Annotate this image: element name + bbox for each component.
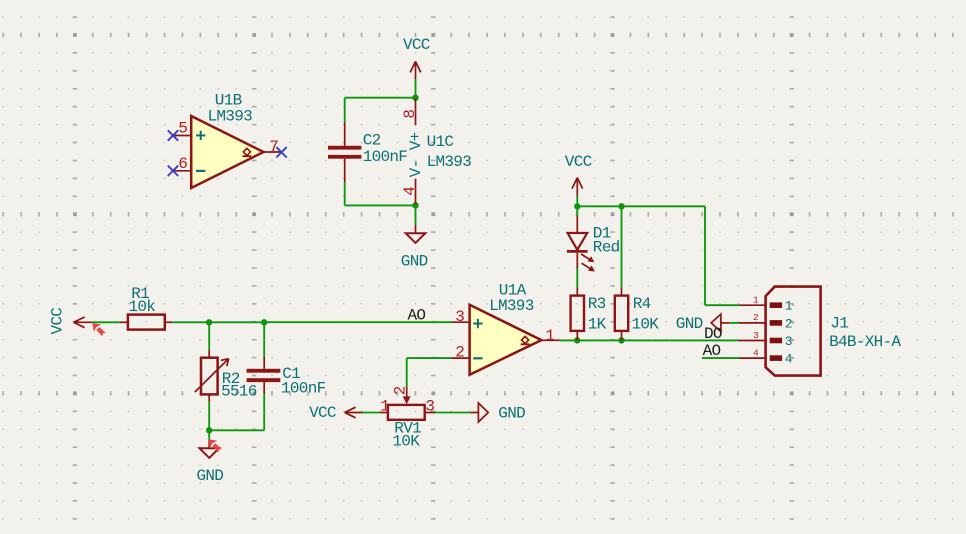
- svg-text:1: 1: [380, 398, 389, 416]
- svg-text:4: 4: [753, 347, 759, 358]
- svg-text:6: 6: [178, 155, 187, 173]
- wire C2 bottom drop: [344, 182, 346, 205]
- svg-text:10K: 10K: [632, 315, 660, 333]
- svg-text:8: 8: [401, 110, 419, 119]
- label 1K (R3): [588, 315, 607, 333]
- svg-text:V+: V+: [407, 132, 425, 150]
- label 5516 (R2): [221, 382, 257, 400]
- svg-text:Red: Red: [593, 239, 620, 257]
- svg-text:GND: GND: [498, 405, 525, 423]
- wire bottom rail C2 to U1C pin 4: [345, 204, 416, 206]
- svg-text:5516: 5516: [221, 382, 257, 400]
- wire node A down to R2: [208, 322, 210, 350]
- svg-text:10K: 10K: [392, 433, 420, 451]
- U1B pin 7 (output): [264, 138, 282, 156]
- ERC marker at VCC/R1 wire: [93, 323, 106, 336]
- svg-text:C2: C2: [363, 132, 381, 150]
- RV1 pin 3 number: [425, 398, 434, 416]
- svg-text:2: 2: [785, 316, 793, 331]
- svg-text:GND: GND: [401, 253, 428, 271]
- svg-text:2: 2: [753, 312, 759, 323]
- wire VCC stem to top rail junction: [415, 80, 417, 98]
- svg-text:R4: R4: [633, 295, 651, 313]
- svg-text:VCC: VCC: [309, 404, 336, 422]
- power flag VCC (left, feeds R1): [48, 308, 92, 335]
- label GND (below U1C): [401, 253, 428, 271]
- power flag VCC (top, to U1C pin 8): [403, 36, 430, 79]
- label LM393 (U1A): [489, 297, 534, 315]
- op-amp U1B body: [191, 116, 263, 188]
- ERC marker at ground: [209, 439, 222, 452]
- label J1: [830, 314, 848, 332]
- pin name V- (U1C): [407, 160, 425, 178]
- resistor R1: [120, 315, 173, 330]
- label LM393 (U1C): [427, 153, 472, 171]
- svg-text:J1: J1: [830, 314, 848, 332]
- wire RV1 pin 3 to GND label: [435, 412, 470, 414]
- wire RV1 wiper drop: [406, 358, 408, 387]
- label R4: [633, 295, 651, 313]
- wire R2 to ground junction: [208, 402, 210, 431]
- global label GND (at J1 pin 2): [676, 314, 730, 333]
- label RV1: [394, 420, 421, 438]
- junction VCC rail at R4: [618, 203, 624, 209]
- wire AO stub to J1 pin 4: [702, 357, 739, 359]
- junction node GND (R2/C1): [206, 427, 212, 433]
- label GND (R2/C1): [197, 467, 224, 485]
- wire left drop to C2 top: [344, 98, 346, 123]
- svg-text:VCC: VCC: [48, 308, 66, 335]
- label C1: [282, 365, 300, 383]
- wire VCC rail to R4: [621, 206, 623, 287]
- power flag VCC (at RV1 pin 1): [309, 404, 363, 422]
- label C2: [363, 132, 381, 150]
- label 10K (RV1): [392, 433, 420, 451]
- J1 pin 2: [739, 312, 794, 331]
- RV1 pin 1 number: [380, 398, 389, 416]
- svg-text:GND: GND: [197, 467, 224, 485]
- junction node B (C1 top): [261, 319, 267, 325]
- svg-text:VCC: VCC: [565, 153, 592, 171]
- wire R1 to junction A: [172, 321, 209, 323]
- U1A pin 3 (+ input): [452, 308, 470, 326]
- svg-text:3: 3: [455, 308, 464, 326]
- wire drop to J1 pin 1: [704, 206, 706, 305]
- net label DO (at J1 pin 3): [704, 325, 722, 343]
- ground symbol (R2/C1): [200, 440, 220, 458]
- resistor R4: [615, 288, 628, 341]
- svg-text:1: 1: [753, 295, 759, 306]
- junction top rail at U1C pin 8: [412, 95, 418, 101]
- capacitor C2: [328, 123, 361, 183]
- svg-text:4: 4: [401, 187, 419, 196]
- wire node B down to C1: [263, 322, 265, 357]
- op-amp U1C power unit pin 4: [401, 179, 419, 204]
- svg-text:GND: GND: [676, 315, 703, 333]
- wire D1 cathode to R3: [576, 268, 578, 288]
- wire VCC to RV1 pin 1: [362, 412, 381, 414]
- connector J1 body: [766, 287, 821, 376]
- svg-text:5: 5: [178, 120, 187, 138]
- global label GND (at RV1 pin 3): [470, 403, 525, 423]
- J1 pin 4: [739, 347, 794, 366]
- svg-text:1K: 1K: [588, 315, 607, 333]
- svg-text:LM393: LM393: [489, 297, 534, 315]
- svg-text:DO: DO: [704, 325, 722, 343]
- wire node A to node B: [209, 321, 264, 323]
- wire VCC to R1: [92, 321, 120, 323]
- svg-text:LM393: LM393: [427, 153, 472, 171]
- wire top rail C2 to U1C: [345, 97, 416, 99]
- wire VCC rail to J1 drop: [577, 205, 705, 207]
- junction node A (R1/R2): [206, 319, 212, 325]
- wire GND node stem: [208, 430, 210, 440]
- svg-text:1: 1: [785, 299, 793, 314]
- label Red (D1): [593, 239, 620, 257]
- junction bottom rail at U1C pin 4: [412, 202, 418, 208]
- U1A pin 2 (- input): [452, 344, 470, 362]
- wire node B to U1A pin 3 (AO net): [264, 321, 451, 323]
- label 10k (R1): [129, 298, 156, 316]
- label R1: [131, 285, 149, 303]
- svg-text:VCC: VCC: [403, 36, 430, 54]
- wire GND label to J1 pin 2: [730, 322, 739, 324]
- label 10K (R4): [632, 315, 660, 333]
- U1A pin 1 (output): [541, 327, 559, 345]
- LED D1: [567, 216, 595, 271]
- J1 pin 1: [739, 295, 794, 314]
- svg-text:AO: AO: [408, 306, 426, 324]
- svg-text:100nF: 100nF: [281, 380, 326, 398]
- J1 pin 3: [739, 330, 794, 349]
- junction output at R3: [574, 337, 580, 343]
- wire C1 bottom to GND node: [209, 429, 264, 431]
- power flag VCC (above D1): [565, 153, 592, 196]
- U1B pin 5: [173, 120, 191, 138]
- wire VCC rail to D1 anode: [576, 206, 578, 216]
- svg-text:B4B-XH-A: B4B-XH-A: [829, 333, 901, 351]
- label D1: [593, 224, 611, 242]
- resistor R3: [571, 288, 584, 341]
- label 100nF (C2): [363, 148, 408, 166]
- svg-text:3: 3: [753, 330, 759, 341]
- op-amp U1C power unit pin 8: [401, 99, 419, 125]
- label R2: [222, 370, 240, 388]
- pin name V+ (U1C): [407, 132, 425, 150]
- wire C1 bottom drop: [263, 394, 265, 430]
- wire U1A pin2 to RV1 wiper (horiz): [407, 357, 452, 359]
- svg-text:U1C: U1C: [427, 133, 454, 151]
- label U1B: [215, 92, 242, 110]
- label 100nF (C1): [281, 380, 326, 398]
- ground symbol (below U1C): [406, 225, 426, 243]
- svg-text:2: 2: [391, 386, 409, 395]
- wire into J1 pin 1: [705, 304, 739, 306]
- svg-text:100nF: 100nF: [363, 148, 408, 166]
- svg-text:V-: V-: [407, 160, 425, 178]
- svg-text:3: 3: [425, 398, 434, 416]
- RV1 pin 2 number: [391, 386, 409, 395]
- svg-text:10k: 10k: [129, 298, 156, 316]
- potentiometer RV1: [380, 387, 435, 420]
- wire GND stem below bottom rail: [415, 205, 417, 224]
- svg-text:4: 4: [785, 352, 793, 367]
- label R3: [588, 295, 606, 313]
- no-connect flag U1B pin 5: [168, 130, 178, 140]
- U1B pin 6: [173, 155, 191, 173]
- svg-text:1: 1: [545, 327, 554, 345]
- no-connect flag U1B pin 7: [276, 147, 286, 157]
- svg-text:2: 2: [455, 344, 464, 362]
- svg-text:R3: R3: [588, 295, 606, 313]
- label B4B-XH-A (J1): [829, 333, 901, 351]
- junction output at R4: [618, 337, 624, 343]
- net label AO (at U1A input): [408, 306, 426, 324]
- svg-text:3: 3: [785, 334, 793, 349]
- wire VCC to D1 rail: [576, 196, 578, 206]
- op-amp U1A body: [470, 305, 542, 375]
- no-connect flag U1B pin 6: [168, 166, 178, 176]
- label U1C: [427, 133, 454, 151]
- svg-text:LM393: LM393: [208, 107, 253, 125]
- net label AO (at J1 pin 4): [703, 342, 721, 360]
- wire U1A output rail (DO net): [560, 339, 739, 341]
- photoresistor R2: [195, 350, 229, 402]
- label U1A: [499, 281, 527, 299]
- label LM393 (U1B): [208, 107, 253, 125]
- capacitor C1: [247, 357, 281, 394]
- junction VCC rail at D1: [574, 203, 580, 209]
